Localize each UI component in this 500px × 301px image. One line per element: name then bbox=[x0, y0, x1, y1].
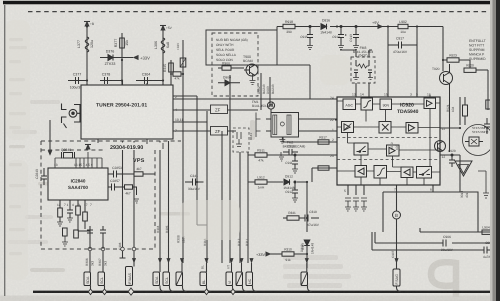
+33V feed arrow bbox=[134, 56, 138, 60]
IC2840 top pin numbers bbox=[54, 163, 93, 167]
IC920 internal multiplier X bbox=[379, 122, 391, 134]
wire pin22 y=168 bbox=[312, 168, 337, 182]
wires SAW FM2 to IC920 bbox=[283, 119, 337, 142]
mixer M circle FM1 bbox=[267, 102, 274, 113]
diodes D902 D903 vertical with labels bbox=[261, 73, 270, 110]
wire: vertical x=134 bbox=[133, 141, 135, 263]
watermark letter P bbox=[431, 260, 456, 297]
FM3 dashed box SAW resonator bbox=[351, 46, 375, 83]
+33V feed arrow bottom bbox=[266, 252, 282, 256]
capacitor C914 bbox=[338, 26, 347, 50]
IC920 internal amp-left row4 a bbox=[355, 166, 367, 178]
wire: tuner IF line y=131 bbox=[173, 130, 236, 132]
main dashed border top bbox=[28, 11, 489, 13]
dashed module separator under tuner bbox=[41, 140, 181, 142]
labels under opamp bbox=[460, 191, 469, 198]
long wires bottom right bbox=[372, 232, 497, 250]
resistor R345 bbox=[169, 63, 174, 72]
option note text bbox=[216, 38, 248, 62]
inductor L902 bbox=[398, 24, 408, 28]
wire top right to T920 bbox=[417, 27, 470, 72]
transistor T922 bbox=[435, 141, 446, 152]
capacitor C341 bbox=[185, 179, 204, 186]
scan mottling patches bbox=[6, 20, 350, 280]
connector SCL left bbox=[98, 272, 105, 286]
top supply wire y=26.5 bbox=[277, 27, 417, 98]
wire: vertical x=160 bbox=[159, 141, 161, 263]
bus diamond node BL bbox=[204, 289, 208, 295]
connector SDA mid bbox=[153, 272, 160, 286]
wire y=182 chain bbox=[248, 182, 307, 232]
IC920 internal amp top right bbox=[424, 98, 436, 109]
TUNER block bbox=[81, 85, 173, 139]
diode D900 bbox=[218, 80, 240, 86]
IC920 internal block 90degN bbox=[380, 99, 392, 110]
connector NC diag 2 bbox=[236, 272, 243, 286]
rotated label R308 bbox=[177, 235, 186, 243]
bus diamond SDA bbox=[88, 289, 92, 295]
bus diamond IF/AAS bbox=[128, 288, 134, 295]
resistor R900 bbox=[218, 66, 244, 70]
SDA/SCL wires below VPS bbox=[90, 226, 126, 272]
VPS module dashed box bbox=[41, 141, 155, 249]
misc rotated tiny labels for density bbox=[118, 225, 249, 250]
IC920 internal block slope row4 bbox=[374, 166, 387, 179]
connector SCL mid bbox=[163, 272, 170, 286]
cap right of circle bbox=[484, 118, 490, 134]
wires FM3 to IC920 pins 13 14 bbox=[340, 50, 372, 97]
IC920 internal block AGC bbox=[343, 99, 356, 110]
wire: tuner AGC line y=99 bbox=[173, 98, 337, 100]
capacitor C913 bbox=[353, 26, 359, 50]
top right note text block bbox=[469, 39, 486, 61]
option note dashed box bbox=[212, 33, 258, 96]
resistor R917 bbox=[318, 140, 329, 144]
wire: vertical x=222 bbox=[221, 131, 223, 263]
SAW filter FM2 box bbox=[256, 113, 299, 144]
resistor R923 bbox=[447, 58, 459, 62]
diode D916 1N4148 bbox=[321, 24, 327, 30]
cap C2840 left of IC bbox=[41, 168, 47, 185]
bus diamond node VT bbox=[231, 289, 235, 295]
capacitor C905 bbox=[484, 247, 493, 254]
cap C2842 below IC bbox=[67, 200, 73, 222]
connector NC diag 3 bbox=[301, 272, 308, 286]
IC920 internal amp row3 bbox=[387, 145, 400, 156]
ground under opamp bbox=[478, 171, 489, 198]
inductor L912 bbox=[255, 180, 267, 184]
module label 29304-019.90 bbox=[107, 143, 163, 151]
small dashed filter box under tuner lines bbox=[233, 128, 253, 152]
IC2840 bottom pin numbers bbox=[57, 203, 92, 207]
IC920 internal amp row2 right bbox=[406, 123, 418, 134]
supply arrow +B bbox=[84, 22, 90, 27]
resistor R917b bbox=[318, 166, 329, 170]
IC920 internal block slope 1 bbox=[361, 98, 373, 110]
IC920 internal switch row3 bbox=[354, 143, 368, 155]
discrete opamp triangle bbox=[455, 161, 472, 176]
capacitor C912 bbox=[292, 181, 298, 202]
inductor L306 bbox=[161, 38, 165, 53]
capacitor C920 bbox=[449, 154, 455, 167]
resistor R377 bbox=[120, 38, 125, 48]
IC920 bottom pin wires and caps bbox=[348, 185, 364, 195]
diode D376 ZTK33 bbox=[108, 55, 113, 61]
tuner pin ticks bbox=[87, 83, 163, 144]
wire y=155 to IC pin 23 bbox=[248, 154, 337, 156]
cap C2854 + part chain right pin2 bbox=[108, 184, 139, 204]
tuner pin numbers right bbox=[175, 95, 183, 133]
wire: caps row stubs bbox=[68, 80, 163, 82]
capacitor C906 bbox=[443, 240, 446, 247]
connector rotated texts bbox=[86, 273, 399, 285]
+9V feed arrow bbox=[378, 25, 382, 29]
IC2840 top pin wires bbox=[55, 152, 102, 168]
wire loop rectangle right bottom bbox=[383, 185, 490, 232]
IC2840 SAA4700 bbox=[48, 168, 108, 200]
wire: +5V rail to L306 down to tuner bbox=[162, 30, 164, 85]
connector lead wires with arrows bbox=[91, 240, 401, 292]
connector NC diag 1 bbox=[176, 272, 183, 286]
circled letter B bbox=[393, 211, 401, 219]
capacitor C2848 on SDA wire bbox=[87, 226, 93, 237]
connector IF/AAS bbox=[126, 267, 133, 286]
connector 6 bbox=[226, 272, 233, 286]
capacitor C377 bbox=[70, 77, 84, 84]
resistor on x=488 wire bbox=[486, 100, 491, 109]
capacitor C916 bbox=[279, 149, 298, 161]
IC920 internal amp-left row4 b bbox=[401, 167, 413, 178]
IC920 TDA5940 body bbox=[337, 97, 440, 185]
capacitor C911 bbox=[292, 154, 298, 173]
wire: vertical x=230 bbox=[229, 75, 231, 263]
FM3 internals bbox=[353, 60, 373, 80]
diode D310 vertical bbox=[304, 240, 310, 246]
antenna feed wire into module bbox=[48, 120, 52, 155]
IC920 internal dashed separators bbox=[337, 138, 440, 160]
+5V arrow into VPS bbox=[85, 145, 91, 150]
capacitor C2849 on SCL wire bbox=[100, 226, 106, 237]
solid box around option note bbox=[206, 30, 310, 99]
connector boxes row bbox=[84, 267, 400, 287]
wire x=307 down to connector bbox=[306, 246, 308, 269]
wire: vertical x=248 bbox=[247, 152, 249, 263]
resistor R306 on x182 wire bbox=[180, 58, 186, 67]
diode D912 1N4148 bbox=[284, 179, 290, 185]
resistor R918 bbox=[283, 24, 295, 28]
resistor R920 bbox=[464, 68, 488, 110]
resistor R2845 below IC bbox=[83, 200, 88, 229]
inductor L377 bbox=[85, 37, 89, 52]
resistor R2846 bbox=[62, 228, 68, 246]
capacitor C378 bbox=[100, 77, 112, 84]
capacitor C917 470u/16V bbox=[388, 42, 417, 49]
tuner output wires bbox=[173, 99, 337, 131]
wire: D376 to +33V arrow horizontal bbox=[100, 57, 133, 59]
wire: R345 branch bbox=[170, 60, 172, 85]
wire: vertical x=240 bbox=[239, 152, 241, 263]
IC920 internal connecting wires bbox=[337, 101, 440, 185]
wire: tuner IF line y=110 bbox=[173, 109, 258, 111]
bottom bus thick line bbox=[33, 291, 500, 293]
resistor R310 bbox=[282, 252, 307, 256]
resistor R341 and cap C310 row bbox=[283, 215, 319, 222]
junction circles on VPS dashed bottom bbox=[88, 247, 136, 251]
watermark bleed-through text bbox=[8, 100, 351, 288]
cap C2853 + resistor chain right pin1 bbox=[108, 171, 155, 178]
rotated labels right column bbox=[390, 104, 455, 150]
left margin bleed-through smudges bbox=[9, 38, 255, 272]
wire pin11 to right bbox=[440, 127, 460, 129]
IC920 pin numbers bbox=[330, 93, 445, 194]
resistor R2847 bbox=[74, 230, 79, 238]
capacitor C304 bbox=[140, 77, 152, 84]
rotated net labels SDA/SCL bbox=[85, 258, 108, 266]
wire: vertical x=168.5 bbox=[168, 141, 170, 263]
diagonal NC strokes bbox=[177, 273, 308, 285]
small box component on x=465 bbox=[463, 105, 468, 116]
alignment circle SFE bbox=[463, 125, 494, 156]
wire: vertical x=123 bbox=[122, 81, 124, 250]
bottom paper band bbox=[0, 296, 500, 301]
SCHEMATIC CONTENT bbox=[68, 26, 171, 85]
connector IF/AAS right bbox=[393, 269, 400, 286]
resistor R911 bbox=[255, 153, 267, 157]
transistor T920 bbox=[440, 64, 453, 110]
inductor L904 bbox=[482, 230, 491, 234]
resistor R2841 below IC pin12 bbox=[57, 200, 63, 226]
crystal Q2840 bbox=[62, 152, 75, 159]
connector 5 bbox=[200, 272, 207, 286]
wires right column verticals bbox=[450, 60, 494, 250]
ZF label box 2 bbox=[211, 127, 228, 136]
ZF label box 1 bbox=[211, 105, 228, 114]
wire pin12 to C920 bbox=[440, 155, 460, 158]
extra rotated net labels right connectors bbox=[301, 242, 395, 258]
IC920 internal switch row4 bbox=[417, 167, 432, 179]
right dark page edge bbox=[490, 0, 493, 301]
connector SDA left bbox=[84, 272, 91, 286]
connector 8 bbox=[246, 272, 253, 286]
wire pin7 down with circled B bbox=[396, 185, 398, 240]
wire: vertical x=207 bbox=[206, 111, 208, 263]
top black bar bbox=[3, 1, 500, 4]
wire: R377 branch vertical bbox=[121, 33, 123, 85]
ceramic filter in circle bbox=[465, 137, 483, 146]
ground in note box bbox=[250, 74, 256, 85]
IC920 pin tick marks bbox=[335, 95, 442, 187]
supply arrow +5V (L306) bbox=[160, 26, 166, 31]
wire: tuner line y=122 bbox=[173, 121, 207, 123]
wire: vertical x=197 bbox=[173, 96, 207, 225]
long vertical bus wires bbox=[123, 40, 249, 263]
resistor R2843 below IC bbox=[76, 200, 90, 231]
wire: +B rail to L377 down to tuner bbox=[86, 26, 88, 85]
bus diamond SCL bbox=[102, 289, 106, 295]
transistor T900 bbox=[244, 64, 258, 76]
capacitor C915 bbox=[307, 26, 313, 50]
IC920 internal variable amp row2 bbox=[342, 122, 354, 133]
left page edge line bbox=[4, 2, 5, 296]
antenna connector bbox=[62, 104, 82, 129]
wire: vertical x=181 bbox=[182, 40, 184, 263]
caps under IC920 bbox=[345, 198, 367, 211]
rotated net labels above mid connectors bbox=[201, 265, 231, 269]
resistor R309 small bbox=[170, 72, 183, 76]
